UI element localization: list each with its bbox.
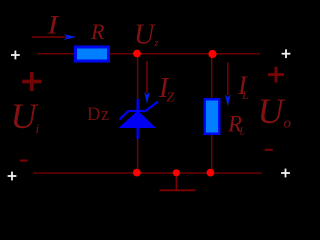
- svg-text:z: z: [154, 38, 159, 49]
- svg-text:U: U: [134, 20, 156, 51]
- svg-text:i: i: [36, 121, 40, 136]
- svg-text:I: I: [46, 11, 59, 40]
- svg-text:U: U: [258, 91, 286, 131]
- svg-text:Z: Z: [167, 91, 175, 106]
- svg-text:U: U: [11, 96, 39, 136]
- svg-text:o: o: [284, 116, 292, 132]
- svg-text:Dz: Dz: [87, 105, 110, 125]
- svg-text:L: L: [239, 127, 246, 138]
- svg-text:L: L: [241, 88, 249, 102]
- svg-text:R: R: [90, 19, 105, 44]
